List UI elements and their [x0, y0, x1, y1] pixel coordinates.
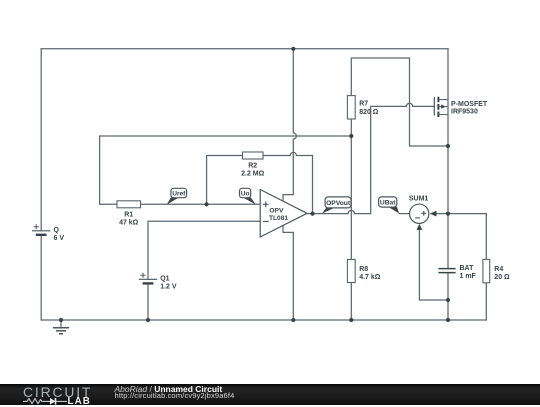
wire SUM1 left stub to UBat flag — [399, 213, 409, 215]
wire op-amp V+ supply: top rail down (hop right over y=136 wire) to stub — [283, 49, 296, 201]
svg-text:Uref: Uref — [172, 190, 186, 197]
flag OPVout — [322, 197, 351, 214]
wire R8 bottom to ground rail — [350, 283, 352, 321]
resistor R8 — [347, 260, 380, 283]
svg-text:R7: R7 — [359, 101, 368, 108]
wire SUM1 right input from R4/BAT node — [436, 213, 486, 215]
svg-text:OPV: OPV — [269, 208, 284, 215]
wire R7 top to drain node: y=58 jog — [351, 58, 448, 146]
wire R2 right leg to output node (hop over V+ vertical) — [263, 152, 313, 213]
wire R1 right to op-amp + input — [141, 203, 261, 205]
wire R2 left leg down to + input node — [207, 156, 243, 205]
wire right vertical: MOSFET source to top rail, channel, drain down to BAT top — [447, 49, 449, 268]
resistor R1 — [117, 201, 141, 227]
svg-text:1 mF: 1 mF — [460, 273, 477, 280]
wire op-amp V- supply: stub down to ground rail — [283, 225, 293, 320]
resistor R4 — [483, 259, 510, 282]
svg-text:SUM1: SUM1 — [409, 195, 429, 202]
wire SUM1 bottom input from BAT bottom node — [419, 230, 448, 300]
wire R1 net: horizontal y=136 to R7 vertical, down-left to R1 — [100, 136, 352, 204]
svg-text:2.2 MΩ: 2.2 MΩ — [241, 171, 265, 178]
transistor M1 P-MOSFET IRF9530 — [434, 97, 488, 117]
wire op-amp - input from Q1 — [148, 221, 260, 320]
svg-text:47 kΩ: 47 kΩ — [119, 220, 139, 227]
ground — [53, 320, 69, 334]
arrowhead into SUM1 bottom — [417, 224, 423, 230]
svg-text:R4: R4 — [494, 266, 503, 273]
svg-text:Q: Q — [54, 227, 60, 234]
wire left rail (battery Q interrupts) — [40, 49, 42, 320]
svg-text:UBat: UBat — [380, 200, 396, 207]
svg-text:P-MOSFET: P-MOSFET — [451, 101, 488, 108]
svg-text:R8: R8 — [359, 266, 368, 273]
wire R4 branch — [485, 214, 487, 320]
resistor R7 — [347, 96, 378, 119]
svg-text:Uo: Uo — [241, 190, 250, 197]
wire op-amp output to MOSFET gate (hops over R7-R8 vertical and over x=409.5 vertical) — [307, 103, 434, 213]
svg-text:R2: R2 — [248, 163, 257, 170]
svg-text:R1: R1 — [124, 212, 133, 219]
flag Uref — [167, 188, 187, 204]
CircuitLab logo — [23, 385, 92, 400]
summer SUM1 — [409, 195, 437, 230]
wire top rail 6V — [41, 48, 448, 50]
svg-text:TL081: TL081 — [269, 215, 288, 222]
svg-text:820 Ω: 820 Ω — [359, 109, 379, 116]
svg-text:Q1: Q1 — [160, 275, 169, 282]
svg-text:OPVout: OPVout — [326, 200, 351, 207]
flag UBat — [379, 197, 400, 214]
wire bottom ground rail — [41, 319, 486, 321]
arrowhead into SUM1 right — [430, 211, 437, 217]
op-amp U1 OPV TL081 — [260, 190, 307, 238]
svg-text:20 Ω: 20 Ω — [494, 274, 510, 281]
resistor R2 — [241, 152, 265, 178]
footer bar — [0, 384, 540, 406]
title text — [115, 384, 223, 394]
wire R7 bottom down to R8 top — [350, 119, 352, 260]
svg-text:1.2 V: 1.2 V — [160, 283, 177, 290]
battery Q1 1.2V — [139, 273, 177, 291]
flag Uo — [240, 188, 256, 204]
svg-text:IRF9530: IRF9530 — [451, 108, 478, 115]
capacitor BAT 1mF — [438, 265, 476, 280]
svg-text:6 V: 6 V — [54, 235, 65, 242]
battery Q 6V — [32, 224, 64, 242]
wire BAT bottom to ground rail — [447, 273, 449, 320]
svg-text:BAT: BAT — [460, 265, 475, 272]
svg-text:4.7 kΩ: 4.7 kΩ — [359, 274, 381, 281]
